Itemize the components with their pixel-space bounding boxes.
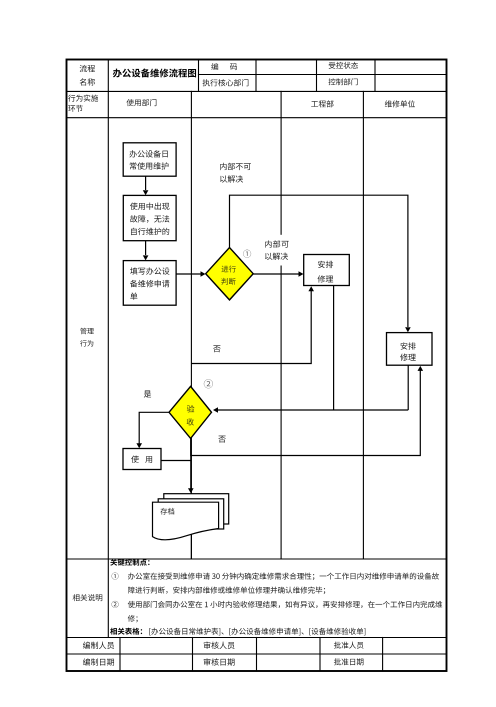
- column line: before 批准人员: [319, 638, 321, 672]
- lane line: 工程部/维修单位: [362, 91, 364, 559]
- process box 使用: [123, 449, 161, 470]
- cell 审核日期: [204, 658, 235, 665]
- row line: lane header bottom: [67, 117, 447, 119]
- title 办公设备维修流程图: [113, 69, 196, 78]
- row line: notes bottom: [67, 637, 447, 639]
- document stack 存档 page2 (middle): [158, 499, 224, 529]
- process box 安排修理 维修单位: [387, 333, 433, 366]
- label 流程名称 line1: [80, 65, 95, 72]
- text 否 (upper): [213, 345, 220, 352]
- row line: header middle (编码/执行核心部门): [199, 74, 447, 76]
- row line: flow area bottom: [67, 558, 447, 560]
- decision diamond 验收: [169, 386, 212, 438]
- text 内部可以解决: [265, 240, 289, 247]
- decision diamond 进行判断: [206, 248, 254, 300]
- white text box behind 内部可以解决 (interrupts lane line): [262, 235, 292, 266]
- column line: header after 编码: [255, 60, 257, 92]
- column line: before 审核人员: [192, 638, 194, 672]
- column line: header after 受控状态: [374, 60, 376, 92]
- column line: label column: [107, 60, 109, 638]
- cell 编制日期: [83, 658, 114, 665]
- row line: between 编制人员/编制日期: [67, 653, 447, 655]
- label 执行核心部门: [203, 79, 249, 86]
- process box 安排修理 工程部: [304, 255, 350, 286]
- process box 办公设备日常使用维护: [123, 143, 176, 176]
- column line: header before 受控状态: [316, 60, 318, 92]
- label 相关说明: [73, 594, 103, 601]
- cell 编制人员: [83, 642, 114, 649]
- lane line: middle/工程部 left: [280, 91, 282, 559]
- column line: after 编制人员: [119, 638, 121, 672]
- arrow 进行判断 -> 安排修理(工程部): [253, 273, 299, 275]
- lane line: 使用部门 right: [190, 91, 192, 559]
- cell 审核人员: [204, 642, 235, 649]
- column line: after 审核人员: [256, 638, 258, 672]
- column line: header after title: [198, 60, 200, 92]
- wire 是: 验收 left -> 使用 box: [139, 412, 169, 443]
- text 内部不可以解决: [220, 163, 251, 170]
- wire 否 feedback: 验收 top -> 安排修理(工程部) bottom: [191, 291, 311, 364]
- wire 安排修理(维修单位) bottom down: [407, 365, 409, 410]
- label 管理行为: [80, 328, 93, 334]
- wire 存档 down to section bottom: [190, 535, 192, 559]
- circled number 2: [204, 379, 213, 388]
- label 编码: [211, 63, 218, 70]
- text 否 (lower): [218, 436, 225, 443]
- process box 使用中出现故障无法自行维护的: [123, 195, 176, 240]
- cell 批准人员: [334, 642, 364, 649]
- notes item 2: [112, 601, 119, 608]
- circled number 1: [243, 250, 251, 258]
- arrow 填写申请单 -> 进行判断: [176, 273, 200, 275]
- table outer border: [67, 60, 447, 672]
- label 受控状态: [329, 62, 358, 69]
- column line: after 批准人员: [382, 638, 384, 672]
- arrow into 验收 right vertex: [217, 409, 408, 411]
- cell 批准日期: [334, 658, 364, 665]
- lane header 使用部门: [126, 99, 156, 106]
- wire 使用 right to 存档 line: [161, 460, 191, 462]
- lane header 维修单位: [385, 100, 415, 107]
- text 是: [144, 391, 151, 398]
- wire 安排修理(工程部) bottom down: [333, 286, 335, 411]
- label 控制部门: [329, 78, 358, 85]
- label 行为实施环节: [68, 95, 98, 102]
- arrow 办公设备日常使用维护 -> 使用中出现故障: [145, 176, 147, 190]
- wire 内部不可以解决: 进行判断 top to 安排修理(维修单位): [230, 195, 408, 327]
- notes heading 关键控制点: [110, 559, 149, 566]
- document stack 存档 page1 (front, wavy bottom): [153, 502, 219, 540]
- notes 相关表格: [110, 628, 142, 635]
- arrow 验收 bottom down to 存档: [190, 438, 192, 488]
- wire 否 feedback: 验收 bottom -> 安排修理(维修单位) bottom: [191, 371, 420, 456]
- arrow 使用中出现故障 -> 填写申请单: [145, 241, 147, 255]
- process box 填写办公设备维修申请单: [123, 261, 176, 306]
- notes item 1: [112, 573, 119, 580]
- lane header 工程部: [311, 100, 333, 107]
- row line: header bottom: [67, 90, 447, 92]
- document stack 存档 page3 (back): [164, 494, 229, 524]
